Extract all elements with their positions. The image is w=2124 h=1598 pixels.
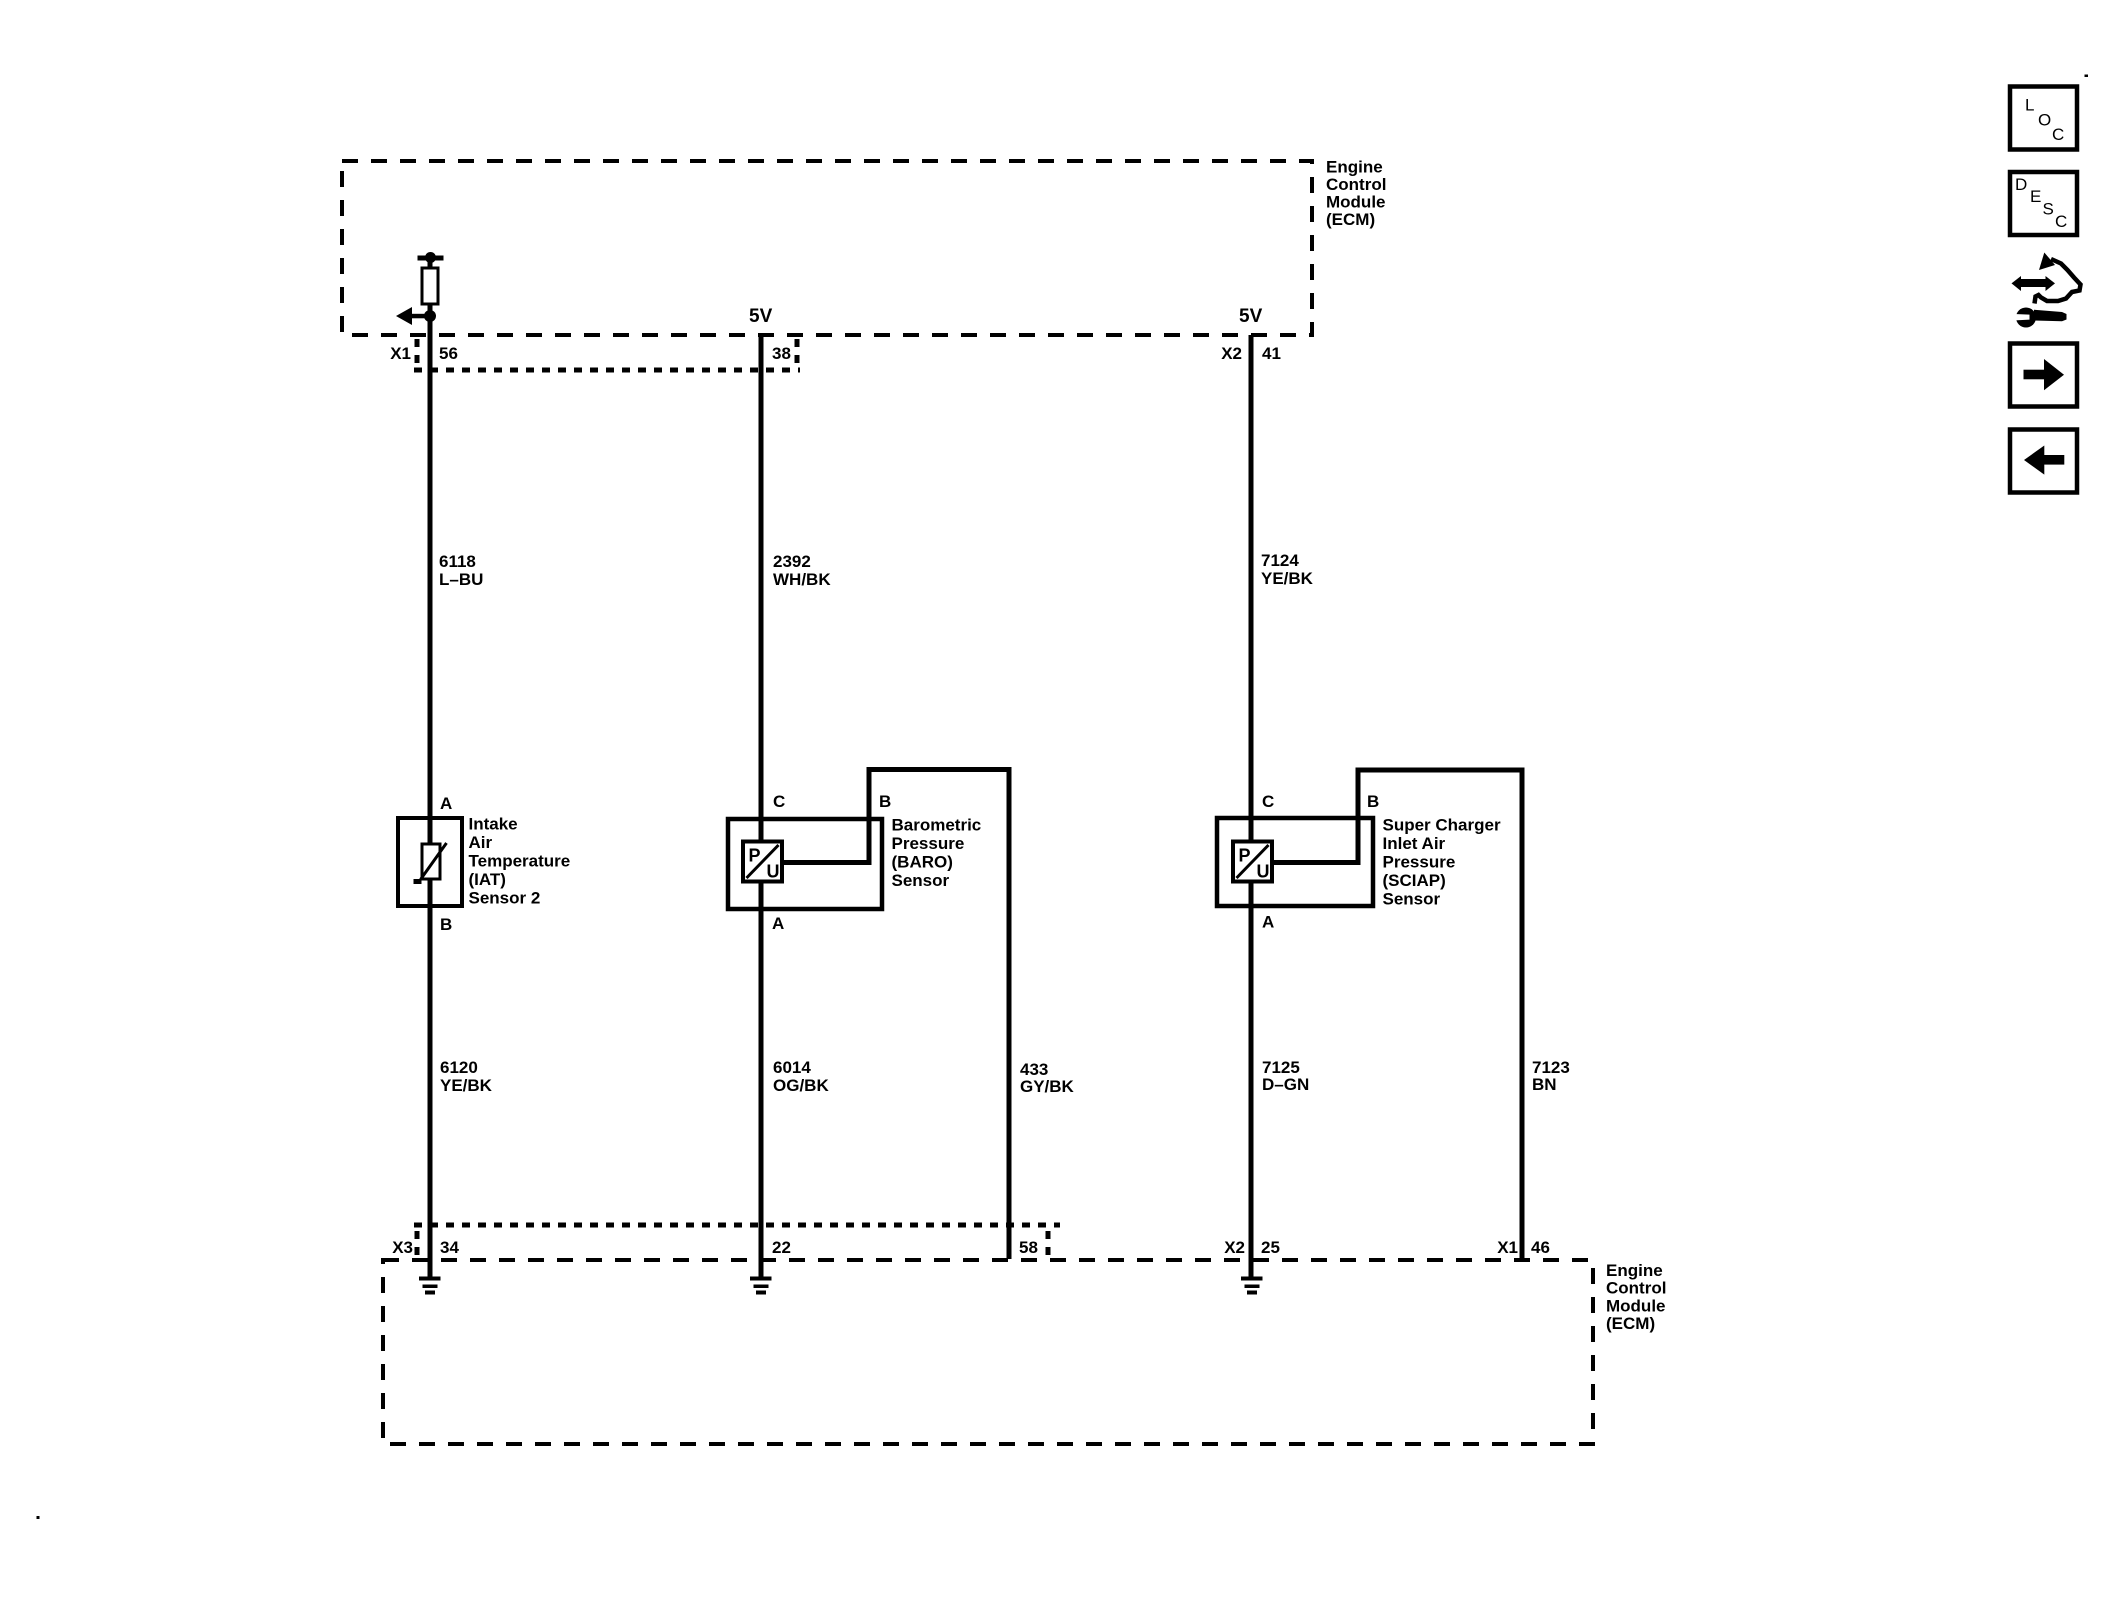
svg-text:C: C [1262,792,1274,811]
svg-text:5V: 5V [749,306,773,327]
svg-text:A: A [772,914,784,933]
svg-text:L: L [2025,96,2034,115]
svg-text:Sensor 2: Sensor 2 [469,888,541,907]
svg-text:X2: X2 [1221,344,1242,363]
svg-text:YE/BK: YE/BK [1261,569,1314,588]
svg-text:41: 41 [1262,344,1281,363]
svg-text:(ECM): (ECM) [1326,210,1375,229]
svg-text:Barometric: Barometric [892,815,982,834]
svg-text:7124: 7124 [1261,551,1299,570]
svg-text:A: A [1262,913,1274,932]
svg-text:P: P [1239,846,1251,866]
svg-text:Engine: Engine [1326,158,1383,177]
svg-text:X3: X3 [392,1238,413,1257]
svg-text:34: 34 [440,1238,459,1257]
svg-text:Intake: Intake [469,815,518,834]
svg-text:Engine: Engine [1606,1261,1663,1280]
svg-text:22: 22 [772,1238,791,1257]
svg-text:Pressure: Pressure [892,834,965,853]
svg-text:D: D [2015,175,2027,194]
svg-text:P: P [749,846,761,866]
svg-text:X1: X1 [1497,1238,1518,1257]
svg-text:Temperature: Temperature [469,851,571,870]
svg-text:Air: Air [469,833,493,852]
svg-text:C: C [773,792,785,811]
svg-text:(BARO): (BARO) [892,852,953,871]
svg-text:YE/BK: YE/BK [440,1076,493,1095]
svg-text:Module: Module [1606,1296,1666,1315]
svg-text:(ECM): (ECM) [1606,1314,1655,1333]
svg-text:56: 56 [439,344,458,363]
svg-text:U: U [1257,862,1270,882]
svg-text:B: B [1367,792,1379,811]
svg-text:Module: Module [1326,193,1386,212]
svg-text:GY/BK: GY/BK [1020,1077,1075,1096]
svg-text:6118: 6118 [439,552,476,571]
svg-text:6014: 6014 [773,1058,811,1077]
svg-text:X1: X1 [390,344,411,363]
svg-text:BN: BN [1532,1075,1557,1094]
svg-text:Control: Control [1606,1279,1666,1298]
svg-text:D–GN: D–GN [1262,1075,1309,1094]
svg-text:(IAT): (IAT) [469,870,506,889]
svg-text:Control: Control [1326,175,1386,194]
svg-text:OG/BK: OG/BK [773,1076,829,1095]
svg-text:25: 25 [1261,1238,1280,1257]
svg-text:B: B [440,915,452,934]
svg-text:5V: 5V [1239,306,1263,327]
svg-text:Super Charger: Super Charger [1383,815,1501,834]
svg-text:Pressure: Pressure [1383,852,1456,871]
svg-text:46: 46 [1531,1238,1550,1257]
svg-text:E: E [2030,187,2041,206]
svg-text:2392: 2392 [773,552,811,571]
svg-text:Sensor: Sensor [1383,889,1441,908]
svg-text:L–BU: L–BU [439,570,483,589]
svg-text:6120: 6120 [440,1058,478,1077]
svg-text:WH/BK: WH/BK [773,570,831,589]
svg-text:Inlet Air: Inlet Air [1383,834,1446,853]
svg-text:Sensor: Sensor [892,871,950,890]
svg-text:C: C [2052,125,2064,144]
svg-text:(SCIAP): (SCIAP) [1383,871,1446,890]
svg-text:58: 58 [1019,1238,1038,1257]
svg-text:A: A [440,794,452,813]
svg-text:38: 38 [772,344,791,363]
svg-text:X2: X2 [1224,1238,1245,1257]
svg-text:U: U [767,862,780,882]
svg-text:S: S [2043,200,2054,219]
svg-text:B: B [879,792,891,811]
svg-text:O: O [2038,111,2051,130]
svg-text:C: C [2055,212,2067,231]
